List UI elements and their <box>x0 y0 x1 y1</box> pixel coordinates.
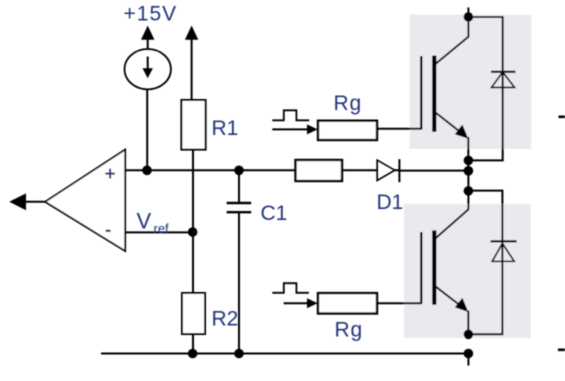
IGBT Q2 gate bar <box>420 232 422 304</box>
resistor Rg (top) <box>318 121 377 140</box>
+15V supply arrow (current source branch) <box>141 26 154 50</box>
freewheel diode (top) <box>491 72 516 88</box>
current source I1 <box>125 49 171 89</box>
node A junction <box>142 166 152 176</box>
wire half-bridge midpoint (emitter to collector) <box>467 160 469 191</box>
IGBT Q2 collector wire <box>435 191 468 239</box>
tick mark right edge (bottom) <box>558 348 565 351</box>
svg-text:ref: ref <box>154 221 170 236</box>
wire C1 to bottom rail <box>238 213 240 354</box>
IGBT Q1 collector wire <box>435 17 469 65</box>
node B junction <box>234 166 244 176</box>
D1 label <box>377 191 404 214</box>
svg-text:D1: D1 <box>377 191 404 214</box>
resistor Rg (bottom) <box>318 293 377 313</box>
bottom rail junction (R2) <box>188 349 198 359</box>
wire R1 to R2 (vertical branch through node Vref) <box>192 150 194 293</box>
middle rail wire (+ input to series resistor) <box>125 169 295 171</box>
wire supply to R1 <box>191 39 193 101</box>
mid node junction (rail) <box>464 166 474 176</box>
node Vref junction <box>188 227 198 237</box>
wire - input to node Vref <box>125 231 192 233</box>
svg-text:C1: C1 <box>261 202 288 225</box>
IGBT Q2 emitter wire with arrow <box>436 286 469 334</box>
svg-text:V: V <box>137 209 152 234</box>
wire top node to freewheel diode (top) <box>468 17 502 160</box>
emitter node junction (top IGBT) <box>464 156 474 166</box>
svg-text:+: + <box>105 164 116 185</box>
wire D1 to node column <box>399 170 468 172</box>
svg-text:R1: R1 <box>212 117 239 140</box>
bottom rail junction (C1) <box>234 349 244 359</box>
R2 label <box>212 308 239 331</box>
input wire with arrow (bottom drive) <box>284 298 318 308</box>
top node junction <box>464 12 474 22</box>
wire bottom node to freewheel diode (bottom) <box>468 191 502 335</box>
R1 label <box>212 117 239 140</box>
wire resistor to D1 <box>342 169 377 171</box>
wire Rg to gate (bottom) <box>377 302 421 304</box>
svg-text:Rg: Rg <box>334 92 362 115</box>
+15V supply arrow (R1 branch) <box>185 26 198 40</box>
output wire with arrow <box>9 193 45 210</box>
+15V label <box>124 3 178 26</box>
tick mark right edge (mid) <box>559 116 565 119</box>
resistor R1 <box>181 100 205 150</box>
collector node junction (bottom IGBT) <box>464 186 474 196</box>
svg-text:R2: R2 <box>212 308 239 331</box>
bottom rail junction (emitter) <box>464 349 474 359</box>
input wire with arrow (top drive) <box>272 124 317 134</box>
C1 label <box>261 202 288 225</box>
IGBT Q1 gate bar <box>420 56 422 130</box>
op-amp U1 <box>45 150 125 252</box>
series resistor (unlabeled) <box>296 160 343 181</box>
op-amp - input label <box>105 220 111 241</box>
resistor R2 <box>182 293 205 334</box>
Rg label (top) <box>334 92 362 115</box>
freewheel diode (bottom) <box>491 241 517 261</box>
wire node B to C1 <box>238 170 240 203</box>
svg-text:+15V: +15V <box>124 3 178 26</box>
bottom rail wire <box>101 353 468 355</box>
diode D1 <box>377 159 399 182</box>
top node stub <box>467 8 469 18</box>
capacitor C1 <box>227 203 252 212</box>
svg-text:-: - <box>105 220 111 241</box>
pulse symbol (top drive) <box>272 110 309 120</box>
Rg label (bottom) <box>335 319 363 342</box>
IGBT Q2 body bar <box>432 230 436 304</box>
wire Rg to gate (top) <box>377 128 421 130</box>
stub below bottom rail <box>467 354 469 366</box>
op-amp + input label <box>105 164 116 185</box>
Vref label <box>137 209 170 237</box>
svg-text:Rg: Rg <box>335 319 363 342</box>
wire R2 to bottom rail <box>192 334 194 354</box>
module shading (top IGBT) <box>410 15 532 149</box>
IGBT Q1 emitter wire with arrow <box>436 113 469 161</box>
pulse symbol (bottom drive) <box>272 283 309 293</box>
IGBT Q1 body bar <box>432 56 436 132</box>
module shading (bottom IGBT) <box>404 204 531 338</box>
wire current source to node A <box>146 89 148 170</box>
emitter node junction (bottom IGBT) <box>464 330 474 340</box>
